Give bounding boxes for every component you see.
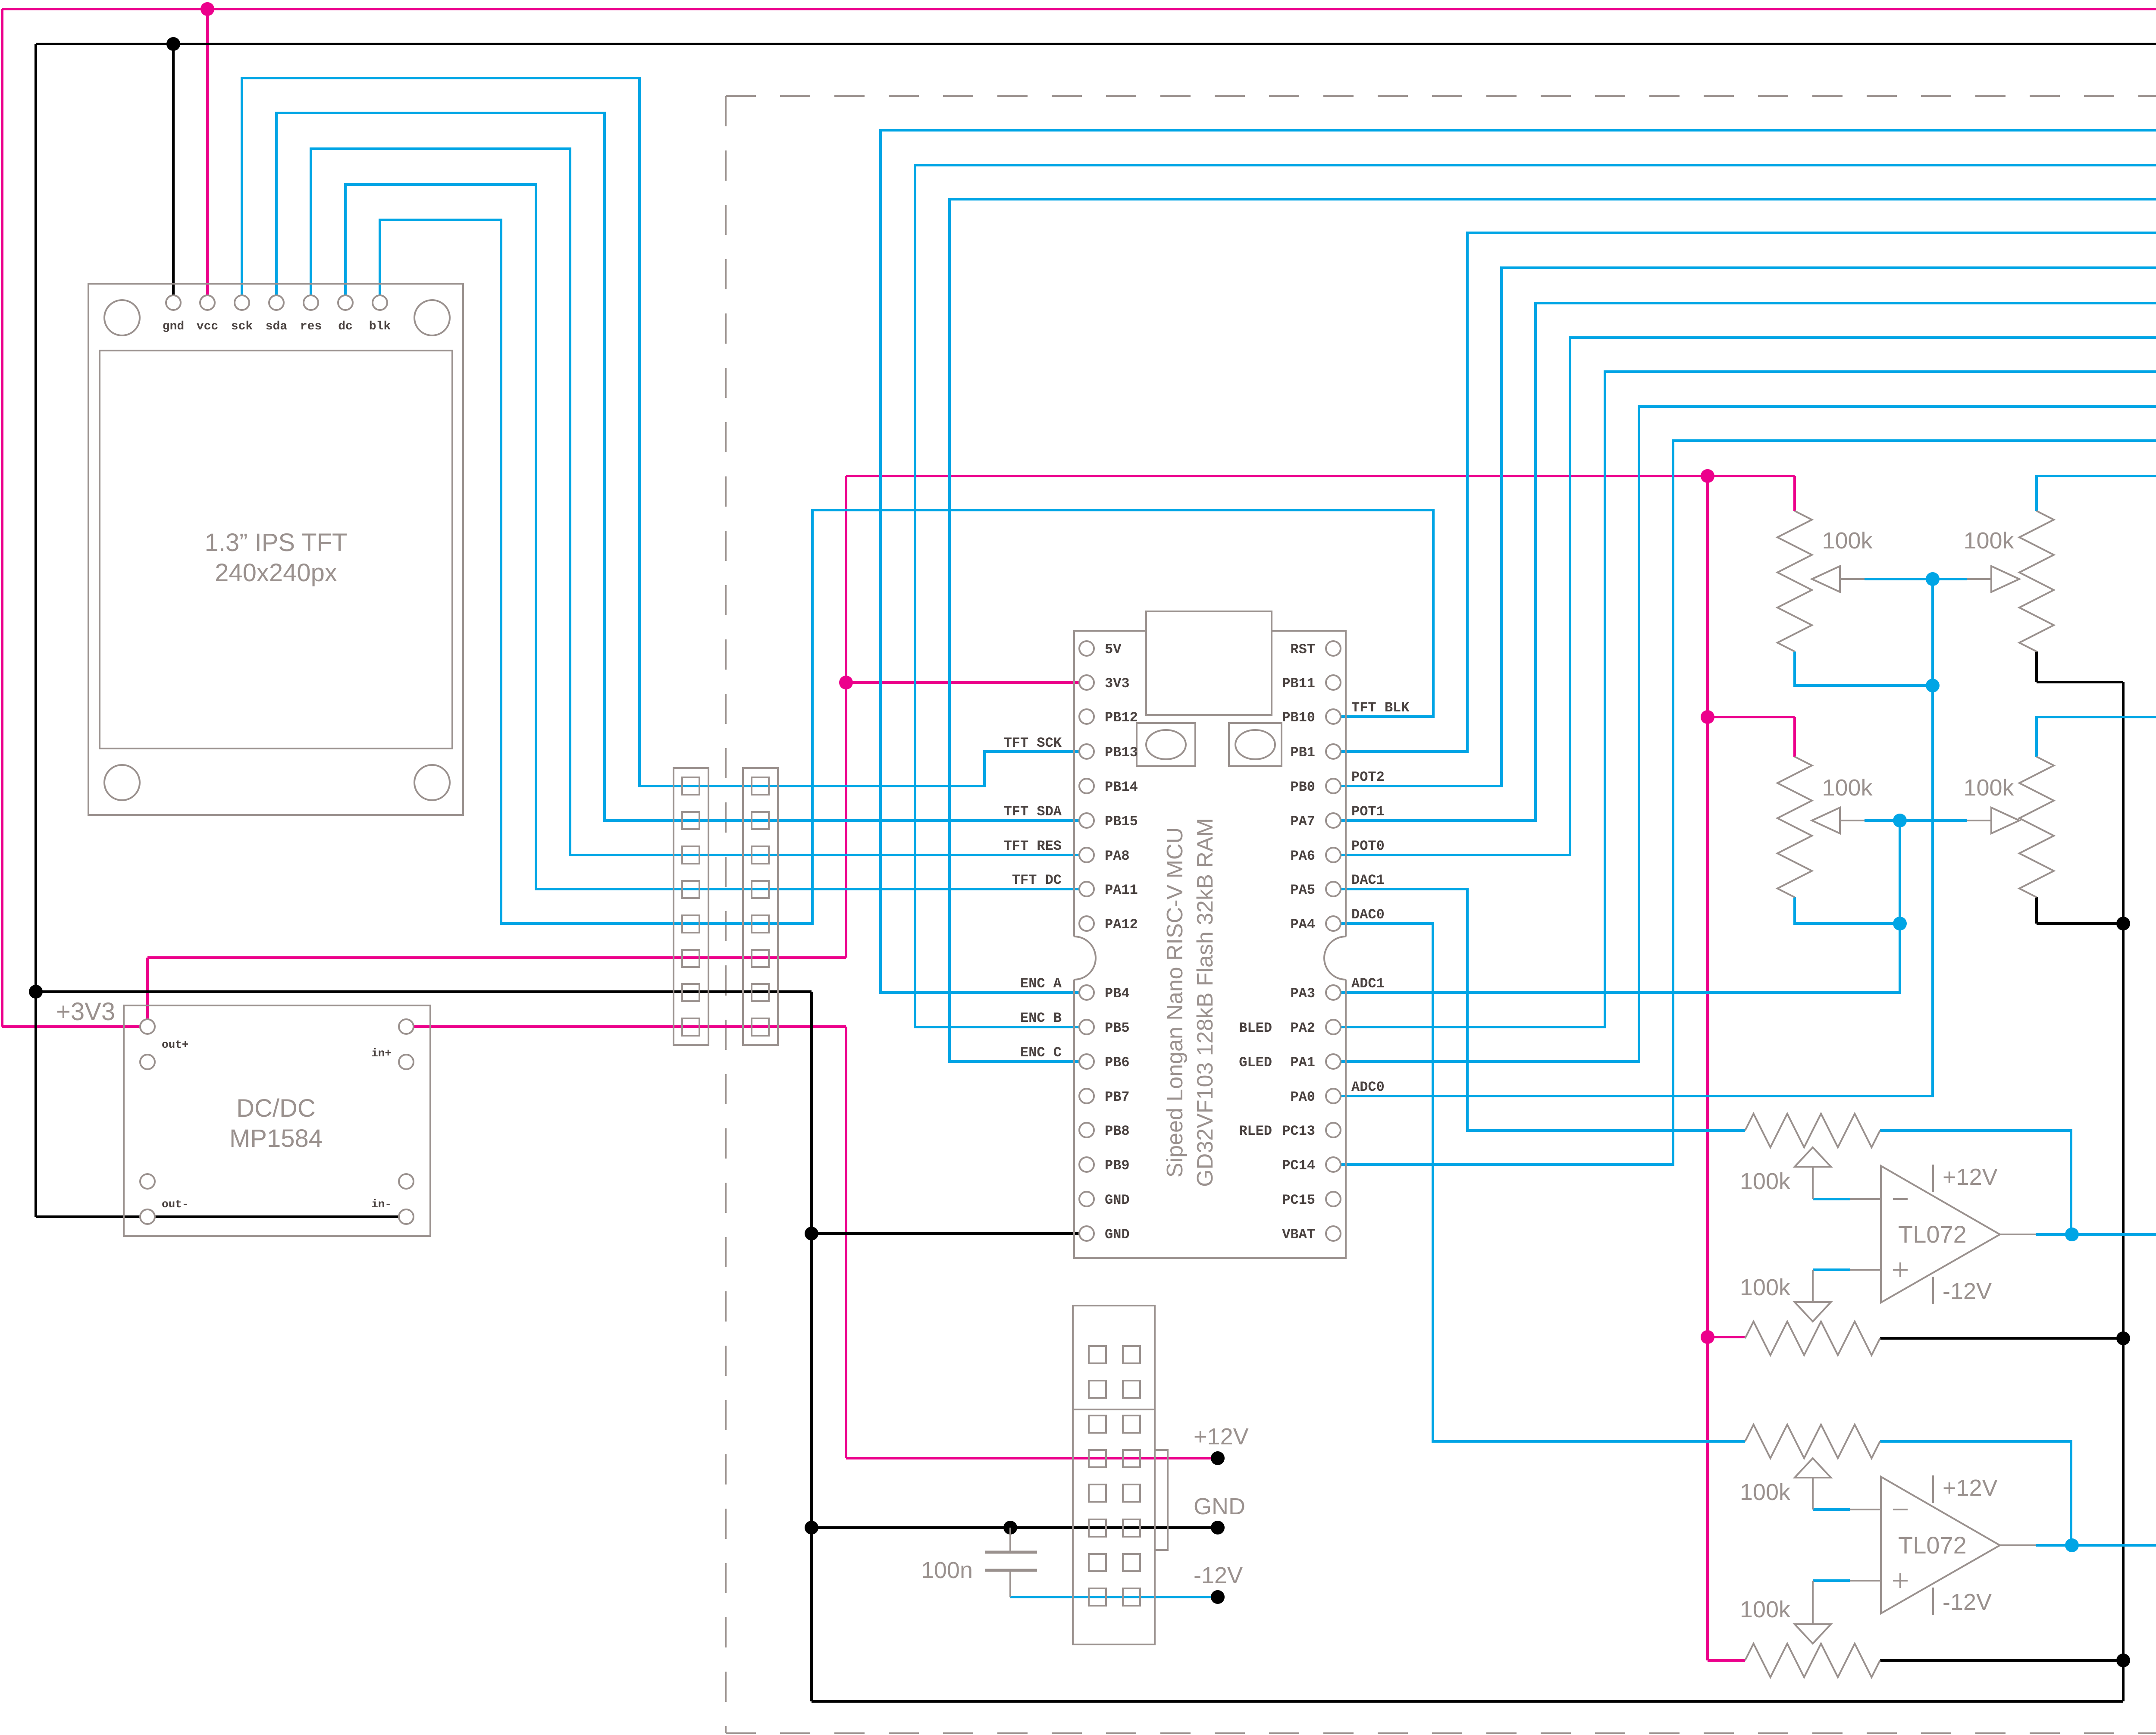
svg-text:TFT SDA: TFT SDA: [1004, 804, 1062, 820]
svg-text:ENC B: ENC B: [1020, 1010, 1062, 1026]
junction op1 pot gnd: [2116, 1331, 2130, 1345]
svg-text:POT0: POT0: [1351, 838, 1385, 854]
junction 100n cap: [1003, 1521, 1017, 1535]
wire op2 non-inverting input: [1813, 1579, 1850, 1582]
svg-text:+12V: +12V: [1943, 1475, 1998, 1501]
svg-text:TFT DC: TFT DC: [1012, 872, 1062, 888]
MCU Sipeed Longan Nano: [1053, 611, 1367, 1258]
svg-text:100n: 100n: [921, 1557, 973, 1583]
svg-text:blk: blk: [369, 320, 391, 333]
svg-text:BLED: BLED: [1239, 1020, 1272, 1036]
svg-text:in-: in-: [371, 1198, 392, 1211]
wire PC14 to header row10: [1333, 441, 2156, 1165]
wire ENC B: [915, 165, 2156, 1027]
junction pot1 bottom: [1926, 679, 1940, 692]
node +12V: [1211, 1451, 1225, 1465]
svg-text:res: res: [300, 320, 322, 333]
svg-text:TFT RES: TFT RES: [1004, 838, 1062, 854]
junction op1 output: [2065, 1228, 2079, 1241]
wire BLED (PA2) to header row8: [1333, 372, 2156, 1027]
wire op1 inverting input: [1813, 1198, 1850, 1200]
svg-text:ENC C: ENC C: [1020, 1045, 1062, 1061]
wire op1 output to jack3 via 1k (header row13): [1880, 1114, 2156, 1354]
wire TFT SDA: [276, 113, 1087, 821]
svg-text:POT2: POT2: [1351, 769, 1385, 785]
wire DAC0 (PA4) to op2 input pot: [1333, 924, 1745, 1441]
svg-text:100k: 100k: [1963, 528, 2014, 554]
svg-text:PB14: PB14: [1105, 779, 1138, 795]
pin header J1 left column: [674, 768, 708, 1045]
svg-text:GD32VF103 128kB Flash 32kB RAM: GD32VF103 128kB Flash 32kB RAM: [1193, 818, 1218, 1187]
power module DC/DC MP1584: [124, 1005, 430, 1236]
wire TFT RES: [311, 149, 1087, 855]
wire GLED (PA1) to header row9: [1333, 407, 2156, 1062]
svg-text:+12V: +12V: [1194, 1424, 1249, 1450]
wire op2 inverting input: [1813, 1508, 1850, 1511]
junction pot3 bottom: [1893, 917, 1907, 930]
junction pot3 wiper: [1893, 814, 1907, 827]
wire ADC0 (PA0) to 100k pot1 wiper: [1333, 579, 1967, 1096]
svg-text:GND: GND: [1105, 1227, 1130, 1243]
svg-text:TL072: TL072: [1898, 1221, 1967, 1248]
svg-text:TL072: TL072: [1898, 1531, 1967, 1559]
svg-text:Sipeed Longan Nano RISC-V MCU: Sipeed Longan Nano RISC-V MCU: [1163, 827, 1188, 1178]
svg-text:100k: 100k: [1740, 1168, 1791, 1194]
junction 100k pot4 gnd: [2116, 917, 2130, 930]
svg-text:PB0: PB0: [1290, 779, 1315, 795]
junction op2 pot gnd: [2116, 1654, 2130, 1667]
svg-text:PB1: PB1: [1290, 745, 1315, 761]
svg-text:gnd: gnd: [163, 320, 184, 333]
junction op1 + pot feed: [1701, 1330, 1714, 1344]
wire TFT SCK: [242, 78, 1087, 786]
op-amp U2 TL072: [1881, 1475, 2036, 1615]
wire GND top bus: [36, 44, 2156, 992]
svg-text:PA0: PA0: [1290, 1089, 1315, 1105]
junction vcc/+3V3: [201, 2, 214, 16]
wire TFT BLK: [380, 220, 1433, 924]
wire +3V3 top bus: [2, 9, 2156, 1027]
wire POT0 (PA6) to 10k pot3 wiper: [1333, 338, 2156, 906]
svg-text:PA2: PA2: [1290, 1020, 1315, 1036]
svg-text:240x240px: 240x240px: [215, 559, 337, 587]
svg-text:100k: 100k: [1822, 528, 1873, 554]
potentiometer 100k op1 feedback: [1745, 1114, 1881, 1199]
op-amp U1 TL072: [1881, 1165, 2036, 1304]
junction op2 output: [2065, 1538, 2079, 1552]
svg-text:PB5: PB5: [1105, 1020, 1130, 1036]
junction 3V3 feed: [839, 676, 853, 689]
wire ENC A: [881, 130, 2156, 993]
svg-text:PB15: PB15: [1105, 814, 1138, 830]
svg-text:100k: 100k: [1822, 775, 1873, 801]
display module 1.3in IPS TFT: [88, 284, 463, 815]
svg-text:VBAT: VBAT: [1282, 1227, 1315, 1243]
svg-text:DAC0: DAC0: [1351, 907, 1385, 923]
svg-text:PC13: PC13: [1282, 1123, 1315, 1139]
svg-text:DAC1: DAC1: [1351, 872, 1385, 888]
svg-text:GND: GND: [1105, 1192, 1130, 1208]
svg-text:sck: sck: [231, 320, 253, 333]
wire ENC C: [950, 199, 2156, 1062]
wire +3V3 from DC/DC out+ to MCU 3V3 and 100k pots: [147, 476, 1795, 1660]
potentiometer 100k pot R2: [1967, 511, 2054, 651]
wire POT2 (PB0) to 10k pot1 wiper: [1333, 268, 2156, 837]
svg-text:1.3” IPS TFT: 1.3” IPS TFT: [205, 529, 348, 557]
svg-text:100k: 100k: [1740, 1597, 1791, 1622]
svg-text:GND: GND: [1194, 1494, 1245, 1519]
svg-text:ADC1: ADC1: [1351, 976, 1385, 992]
junction pot bus upper: [1701, 469, 1714, 483]
wire -12V: [1010, 1596, 1218, 1598]
svg-text:TFT SCK: TFT SCK: [1004, 735, 1062, 751]
junction pot bus lower: [1701, 710, 1714, 724]
wire GND left rail to MCU and power header: [36, 992, 2123, 1701]
svg-text:PA6: PA6: [1290, 848, 1315, 864]
svg-text:PB13: PB13: [1105, 745, 1138, 761]
svg-text:PB8: PB8: [1105, 1123, 1130, 1139]
svg-text:RST: RST: [1290, 642, 1315, 658]
svg-text:+12V: +12V: [1943, 1164, 1998, 1190]
svg-text:PC14: PC14: [1282, 1158, 1315, 1174]
svg-text:RLED: RLED: [1239, 1123, 1272, 1139]
svg-text:PB7: PB7: [1105, 1089, 1130, 1105]
svg-text:PB11: PB11: [1282, 676, 1315, 692]
wire ADC1 (PA3) to 100k pot3 wiper: [1333, 821, 1967, 993]
svg-text:PA8: PA8: [1105, 848, 1130, 864]
svg-text:100k: 100k: [1740, 1479, 1791, 1505]
svg-text:PB12: PB12: [1105, 710, 1138, 726]
svg-text:PA1: PA1: [1290, 1055, 1315, 1071]
svg-text:PA7: PA7: [1290, 814, 1315, 830]
svg-text:PA4: PA4: [1290, 917, 1315, 933]
svg-text:100k: 100k: [1963, 775, 2014, 801]
svg-text:-12V: -12V: [1943, 1589, 1992, 1615]
capacitor C1 100n: [921, 1528, 1037, 1597]
potentiometer 100k pot R4: [1967, 757, 2054, 897]
svg-text:PB10: PB10: [1282, 710, 1315, 726]
svg-text:out+: out+: [162, 1038, 188, 1051]
node -12V: [1211, 1590, 1225, 1604]
wire TFT DC: [345, 185, 1087, 889]
wire PB1 to header row4: [1333, 233, 2156, 802]
svg-text:5V: 5V: [1105, 642, 1122, 658]
wire op1 non-inverting input: [1813, 1268, 1850, 1271]
svg-text:POT1: POT1: [1351, 804, 1385, 820]
dashed module boundary box: [726, 96, 2156, 1733]
svg-text:PA11: PA11: [1105, 882, 1138, 898]
wire jack1 tip to 100k pot2 top (header row11): [2037, 476, 2156, 1045]
wire GND middle bus (op-amp pots): [1880, 651, 2123, 1701]
svg-text:TFT BLK: TFT BLK: [1351, 700, 1410, 716]
wire jack2 tip to 100k pot4 top (header row12): [2037, 717, 2156, 1205]
svg-text:PA12: PA12: [1105, 917, 1138, 933]
svg-text:ADC0: ADC0: [1351, 1079, 1385, 1095]
power header 2x8: [1073, 1306, 1168, 1644]
potentiometer 100k op1 bias: [1745, 1270, 1881, 1355]
svg-text:out-: out-: [162, 1198, 188, 1211]
svg-text:PA3: PA3: [1290, 986, 1315, 1002]
pin header J1 right column: [743, 768, 778, 1045]
potentiometer 100k op2 bias: [1745, 1581, 1881, 1677]
svg-text:-12V: -12V: [1943, 1278, 1992, 1304]
svg-text:3V3: 3V3: [1105, 676, 1130, 692]
potentiometer 100k pot R3: [1777, 757, 1865, 897]
junction TFT gnd: [166, 37, 180, 51]
svg-text:dc: dc: [338, 320, 353, 333]
svg-text:PC15: PC15: [1282, 1192, 1315, 1208]
svg-text:PB6: PB6: [1105, 1055, 1130, 1071]
svg-text:in+: in+: [371, 1047, 392, 1060]
svg-text:DC/DC: DC/DC: [236, 1094, 316, 1122]
svg-text:100k: 100k: [1740, 1275, 1791, 1300]
svg-text:PA5: PA5: [1290, 882, 1315, 898]
junction MCU gnd: [805, 1227, 818, 1240]
svg-text:-12V: -12V: [1194, 1563, 1243, 1588]
svg-text:GLED: GLED: [1239, 1055, 1272, 1071]
junction pot1 wiper: [1926, 572, 1940, 586]
svg-text:sda: sda: [266, 320, 288, 333]
junction gnd rail: [805, 1521, 818, 1535]
wire op2 output to jack4 via 1k (header row14): [1880, 1149, 2156, 1545]
potentiometer 100k pot R1: [1777, 511, 1865, 651]
svg-text:ENC A: ENC A: [1020, 976, 1062, 992]
wire +12V from header to DC/DC in+: [407, 1027, 1218, 1458]
node GND: [1211, 1521, 1225, 1535]
svg-text:PB9: PB9: [1105, 1158, 1130, 1174]
wire DAC1 (PA5) to op1 input pot: [1333, 889, 1745, 1131]
svg-text:vcc: vcc: [197, 320, 218, 333]
svg-text:PB4: PB4: [1105, 986, 1130, 1002]
svg-text:+3V3: +3V3: [56, 998, 115, 1026]
junction gnd corner: [29, 985, 43, 999]
svg-text:MP1584: MP1584: [229, 1124, 323, 1152]
potentiometer 100k op2 feedback: [1745, 1425, 1881, 1510]
wire POT1 (PA7) to 10k pot2 wiper: [1333, 303, 2156, 872]
